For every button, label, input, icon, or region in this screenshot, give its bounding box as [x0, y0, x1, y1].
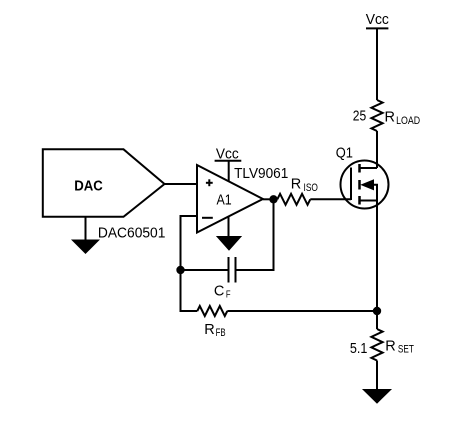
svg-text:FB: FB	[216, 327, 226, 339]
wire DAC ground stub	[85, 217, 87, 240]
Q1 source bar	[360, 200, 378, 202]
svg-text:Q1: Q1	[336, 145, 353, 162]
node source junction	[373, 307, 381, 315]
op-amp U1 A1	[197, 165, 263, 233]
Q1 body to source wire	[374, 185, 378, 201]
op-amp - input marker	[202, 217, 213, 219]
wire node to RSET	[376, 311, 378, 329]
wire RSET to ground	[376, 361, 378, 390]
Vcc supply of op-amp	[228, 161, 230, 181]
RISO label	[291, 177, 318, 194]
wire op-amp output	[263, 198, 278, 200]
wire RISO to gate	[310, 198, 351, 200]
ground (RSET)	[363, 390, 391, 404]
ground (op-amp)	[217, 237, 241, 251]
resistor RISO	[277, 194, 310, 205]
RLOAD label	[385, 110, 421, 128]
svg-text:R: R	[385, 110, 395, 126]
svg-text:SET: SET	[398, 344, 414, 356]
wire op-amp inverting input feedback	[181, 216, 198, 311]
node op-amp output	[269, 195, 277, 203]
svg-text:25: 25	[353, 107, 366, 124]
ground (DAC)	[72, 240, 99, 253]
wire source to RSET node	[376, 201, 378, 312]
RFB label	[204, 322, 225, 339]
svg-text:LOAD: LOAD	[396, 115, 420, 127]
Q1 channel segments	[358, 164, 361, 205]
RSET label	[385, 338, 414, 355]
wire capacitor to output branch	[237, 199, 274, 270]
Vcc rail bar	[366, 27, 388, 29]
svg-text:R: R	[385, 338, 395, 354]
svg-text:Vcc: Vcc	[366, 11, 390, 28]
node feedback junction	[176, 266, 184, 274]
svg-text:5.1: 5.1	[350, 340, 368, 357]
svg-text:C: C	[214, 283, 224, 299]
svg-text:ISO: ISO	[304, 182, 318, 194]
resistor RSET	[371, 329, 382, 360]
op-amp + input marker	[206, 179, 213, 186]
svg-text:A1: A1	[217, 192, 232, 209]
Q1 body arrow	[362, 180, 374, 190]
wire RFB to source node	[227, 310, 377, 312]
svg-text:F: F	[226, 290, 231, 301]
svg-text:DAC: DAC	[74, 178, 103, 195]
capacitor CF	[229, 257, 236, 283]
wire DAC output to op-amp + input	[165, 183, 198, 185]
resistor RFB	[197, 306, 227, 316]
svg-text:DAC60501: DAC60501	[98, 224, 165, 241]
svg-text:TLV9061: TLV9061	[234, 165, 288, 182]
wire Vcc to RLOAD	[376, 29, 378, 101]
Q1 gate bar	[350, 168, 352, 201]
CF label	[214, 283, 231, 300]
resistor RLOAD	[371, 100, 382, 131]
wire RLOAD to drain	[376, 131, 378, 168]
Q1 drain bar	[360, 167, 378, 169]
transistor Q1 body circle	[341, 161, 389, 209]
op-amp negative supply stub	[228, 217, 230, 237]
DAC block DAC60501	[43, 149, 165, 217]
svg-text:R: R	[204, 322, 214, 338]
svg-text:R: R	[291, 177, 301, 193]
wire junction to capacitor	[181, 269, 228, 271]
svg-text:Vcc: Vcc	[216, 146, 239, 163]
